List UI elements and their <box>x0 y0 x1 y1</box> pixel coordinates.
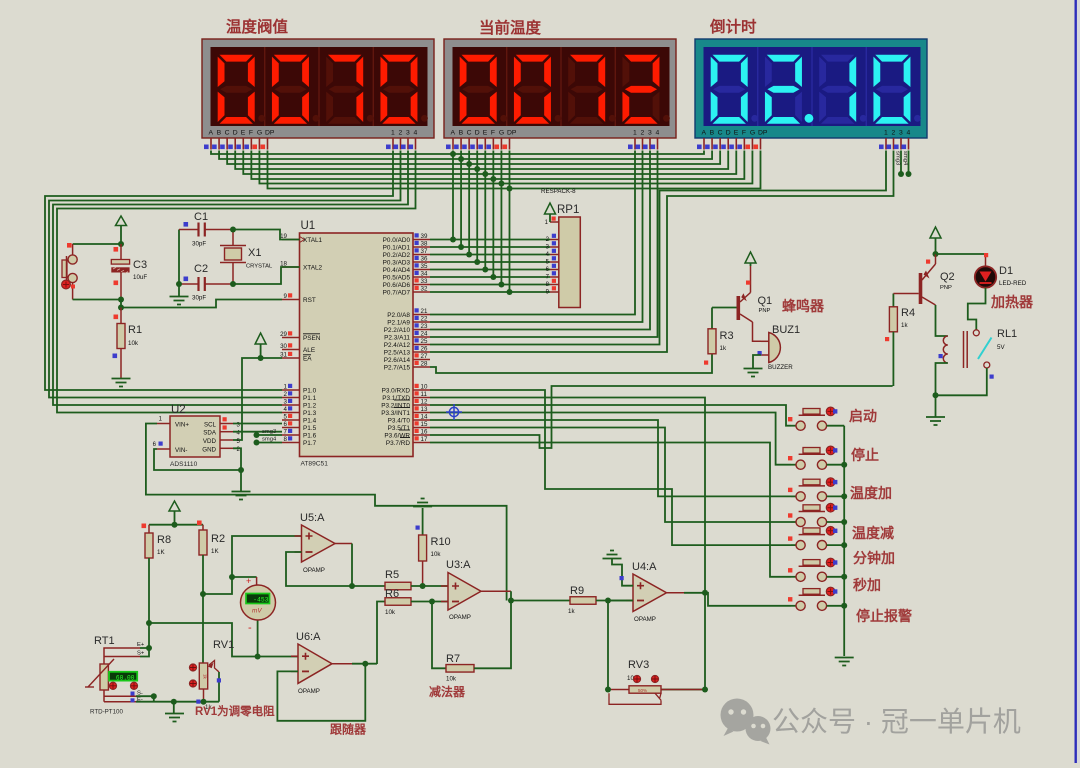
svg-text:2: 2 <box>892 130 896 137</box>
wire U3 out node <box>511 591 570 600</box>
svg-text:23: 23 <box>421 323 428 330</box>
svg-text:7: 7 <box>284 429 288 436</box>
resistor R2 <box>202 525 204 530</box>
svg-text:A: A <box>209 130 214 137</box>
wire R2 to U5+ and meter <box>203 536 302 594</box>
svg-text:分钟加: 分钟加 <box>853 550 895 566</box>
svg-text:减法器: 减法器 <box>429 684 466 699</box>
svg-text:mV: mV <box>252 608 262 615</box>
push button RESET <box>68 255 77 264</box>
display module DS1 (0070) <box>202 39 434 138</box>
svg-text:Q2: Q2 <box>940 271 955 283</box>
svg-text:SCL: SCL <box>204 422 217 429</box>
junction U4 out <box>702 590 708 596</box>
svg-text:Q1: Q1 <box>758 295 773 307</box>
capacitor C1 <box>179 229 199 231</box>
wire U4 minus <box>608 601 633 690</box>
sheet border (blue) <box>1075 0 1077 763</box>
svg-text:RV1为调零电阻: RV1为调零电阻 <box>195 704 275 718</box>
svg-text:P3.5/T1: P3.5/T1 <box>388 425 411 432</box>
svg-text:39: 39 <box>421 233 428 240</box>
wire meter minus <box>257 620 259 657</box>
svg-text:U1: U1 <box>301 220 316 232</box>
svg-text:5V: 5V <box>997 344 1005 351</box>
digit select wires DS2 to P2.0-P2.3 <box>430 151 635 315</box>
svg-text:11: 11 <box>421 391 428 398</box>
svg-text:P0.5/AD5: P0.5/AD5 <box>383 274 411 281</box>
svg-text:公众号 · 冠一单片机: 公众号 · 冠一单片机 <box>772 706 1021 737</box>
svg-text:16: 16 <box>421 429 428 436</box>
wire RTD S- E- node <box>136 696 154 702</box>
svg-text:10k: 10k <box>128 340 139 347</box>
ground U2 <box>232 492 251 500</box>
svg-text:R5: R5 <box>385 569 399 581</box>
svg-text:DP: DP <box>507 130 517 137</box>
svg-text:2: 2 <box>641 130 645 137</box>
svg-text:B: B <box>710 130 715 137</box>
resistor R7 <box>432 602 446 669</box>
svg-text:C2: C2 <box>194 263 208 275</box>
junction relay gnd <box>933 392 939 398</box>
ground RTD <box>165 714 184 722</box>
digit select wires DS3 pins 1,2 to P2.4-P2.5 <box>430 151 886 345</box>
svg-text:1: 1 <box>391 130 395 137</box>
svg-text:RV1: RV1 <box>213 639 234 651</box>
svg-text:VDD: VDD <box>203 438 217 445</box>
svg-text:R7: R7 <box>446 653 460 665</box>
svg-text:P0.1/AD1: P0.1/AD1 <box>383 244 411 251</box>
svg-text:停止报警: 停止报警 <box>856 608 912 624</box>
resistor R9 <box>570 597 596 605</box>
wire XTAL2 net <box>233 267 300 284</box>
junction U6 out <box>362 661 368 667</box>
svg-text:ALE: ALE <box>303 347 315 354</box>
sheet right margin <box>1077 0 1080 763</box>
svg-text:P0.7/AD7: P0.7/AD7 <box>383 289 411 296</box>
svg-text:1: 1 <box>633 130 637 137</box>
svg-text:10k: 10k <box>385 609 396 616</box>
svg-text:60.00: 60.00 <box>116 674 135 681</box>
svg-text:P0.2/AD2: P0.2/AD2 <box>383 252 411 259</box>
junction C1-C2 left <box>176 281 182 287</box>
svg-text:+: + <box>246 576 251 586</box>
svg-text:1k: 1k <box>720 345 727 352</box>
wire U4 out to SW7 <box>705 593 791 606</box>
svg-text:OPAMP: OPAMP <box>298 688 320 695</box>
svg-text:U3:A: U3:A <box>446 559 471 571</box>
potentiometer RV3 <box>629 686 661 693</box>
svg-text:4: 4 <box>656 130 660 137</box>
svg-text:smg4: smg4 <box>262 437 277 443</box>
junction U4 minus <box>605 598 611 604</box>
svg-text:秒加: 秒加 <box>853 577 881 593</box>
svg-text:停止: 停止 <box>851 447 879 463</box>
wire C1 left to C2 left to ground <box>178 230 180 297</box>
op-amp U3:A <box>448 573 481 611</box>
potentiometer RV1 <box>199 663 207 689</box>
svg-text:DP: DP <box>265 130 275 137</box>
junction RV3 left <box>605 687 611 693</box>
svg-text:-453: -453 <box>253 596 269 603</box>
svg-text:P1.6: P1.6 <box>303 432 317 439</box>
power arrow EA <box>255 333 266 344</box>
svg-text:D: D <box>726 130 731 137</box>
svg-text:EA: EA <box>303 355 312 362</box>
net labels smg3 smg4 at DS3 <box>900 151 902 175</box>
svg-text:当前温度: 当前温度 <box>479 18 542 37</box>
svg-text:4: 4 <box>414 130 418 137</box>
svg-text:BUZ1: BUZ1 <box>772 324 800 336</box>
push buttons SW1-SW7 <box>791 425 796 427</box>
svg-text:33: 33 <box>421 278 428 285</box>
svg-text:P1.4: P1.4 <box>303 417 317 424</box>
power arrow reset <box>116 216 127 226</box>
svg-text:30pF: 30pF <box>192 241 206 248</box>
wire P3.2 to button SW1 <box>430 405 791 426</box>
wire Q2 collector <box>936 305 948 336</box>
svg-text:P1.1: P1.1 <box>303 395 317 402</box>
svg-text:P0.0/AD0: P0.0/AD0 <box>383 237 411 244</box>
wires P0.0-P0.7 to RP1 <box>430 239 550 241</box>
crystal X1 <box>220 245 246 247</box>
svg-text:P3.7/RD: P3.7/RD <box>386 440 411 447</box>
svg-text:C3: C3 <box>133 259 147 271</box>
svg-text:E+: E+ <box>137 642 145 648</box>
svg-text:P3.0/RXD: P3.0/RXD <box>382 387 411 394</box>
svg-text:P0.4/AD4: P0.4/AD4 <box>383 267 411 274</box>
svg-text:E: E <box>483 130 488 137</box>
svg-text:12: 12 <box>421 399 428 406</box>
svg-text:DP: DP <box>758 130 768 137</box>
svg-text:1k: 1k <box>568 608 575 615</box>
resistor R1 <box>120 308 122 324</box>
svg-text:1K: 1K <box>157 549 165 556</box>
svg-text:38: 38 <box>421 241 428 248</box>
resistor R4 <box>892 294 894 307</box>
junction meter minus tap <box>255 654 261 660</box>
svg-text:D: D <box>475 130 480 137</box>
svg-text:RL1: RL1 <box>997 328 1017 340</box>
svg-text:R4: R4 <box>901 307 915 319</box>
svg-text:2: 2 <box>284 391 288 398</box>
svg-text:6: 6 <box>284 421 288 428</box>
svg-text:P2.7/A15: P2.7/A15 <box>384 364 411 371</box>
junction R7 riser <box>429 599 435 605</box>
svg-text:28: 28 <box>421 361 428 368</box>
svg-text:R2: R2 <box>211 533 225 545</box>
wire R3 to Q1 base <box>712 307 737 309</box>
svg-text:PSEN: PSEN <box>303 335 321 342</box>
square U4 plus <box>620 576 624 580</box>
svg-text:3: 3 <box>284 399 288 406</box>
relay RL1 switch <box>973 330 979 336</box>
svg-text:F: F <box>742 130 746 137</box>
junction E- gnd <box>171 699 177 705</box>
svg-text:A: A <box>702 130 707 137</box>
wire BUZ1 gnd <box>753 355 761 369</box>
svg-text:R1: R1 <box>128 324 142 336</box>
svg-text:AT89C51: AT89C51 <box>301 461 329 468</box>
svg-text:25: 25 <box>421 338 428 345</box>
svg-text:PNP: PNP <box>759 308 771 314</box>
svg-text:B: B <box>459 130 464 137</box>
junction R8R2 top <box>172 522 178 528</box>
svg-text:22: 22 <box>421 316 428 323</box>
svg-text:32: 32 <box>421 286 428 293</box>
svg-text:CRYSTAL: CRYSTAL <box>246 264 273 270</box>
svg-text:加热器: 加热器 <box>990 294 1034 310</box>
svg-text:P1.5: P1.5 <box>303 425 317 432</box>
svg-text:E: E <box>734 130 739 137</box>
wire U6 out <box>352 663 377 665</box>
svg-text:LED-RED: LED-RED <box>999 280 1027 287</box>
voltmeter mV <box>241 585 276 620</box>
display module DS2 (0072) <box>444 39 676 138</box>
svg-text:3: 3 <box>899 130 903 137</box>
junction C2-X1 <box>230 281 236 287</box>
svg-text:F: F <box>249 130 253 137</box>
junction U5 out <box>349 583 355 589</box>
junction R8 bottom <box>146 620 152 626</box>
resistor R6 <box>377 602 385 665</box>
junction RST tap <box>118 305 124 311</box>
display module DS3 (02.10) <box>695 39 927 138</box>
junction RV1 bottom <box>201 699 207 705</box>
svg-text:XTAL1: XTAL1 <box>303 237 323 244</box>
svg-text:G: G <box>257 130 262 137</box>
junction U2 ground <box>238 467 244 473</box>
wire U4 plus ground <box>612 559 633 586</box>
svg-text:ADS1110: ADS1110 <box>170 461 198 468</box>
svg-text:14: 14 <box>421 414 428 421</box>
svg-text:21: 21 <box>421 308 428 315</box>
svg-text:VIN-: VIN- <box>175 447 187 454</box>
LED D1 <box>936 253 986 255</box>
resistor pack RP1 RESPACK-8 <box>559 217 581 308</box>
svg-text:P3.1/TXD: P3.1/TXD <box>382 395 410 402</box>
svg-text:RTD-PT100: RTD-PT100 <box>90 709 123 716</box>
resistor R10 <box>413 499 432 507</box>
svg-text:P2.4/A12: P2.4/A12 <box>384 342 411 349</box>
svg-text:P1.3: P1.3 <box>303 410 317 417</box>
svg-text:P2.6/A14: P2.6/A14 <box>384 357 411 364</box>
svg-text:启动: 启动 <box>849 408 877 424</box>
svg-text:P0.3/AD3: P0.3/AD3 <box>383 259 411 266</box>
svg-text:跟随器: 跟随器 <box>330 722 367 737</box>
wire U6 feedback <box>277 664 365 721</box>
wire U5 out to R5 <box>352 585 385 587</box>
wire P3.3 to button SW2 <box>430 413 791 465</box>
svg-text:1K: 1K <box>211 548 219 555</box>
wire P3.0 to button SW5 <box>430 390 791 545</box>
wire EA net <box>233 358 282 440</box>
junction RTD E+ <box>146 645 152 651</box>
junction R10 bottom <box>420 583 426 589</box>
svg-text:4: 4 <box>284 406 288 413</box>
ground U4 plus <box>603 551 622 559</box>
segment verticals DS2 pins to P0 bus with junctions <box>452 151 454 240</box>
resistor R5 <box>385 582 411 590</box>
crosshair marker <box>449 407 458 416</box>
svg-text:U4:A: U4:A <box>632 561 657 573</box>
wire meter plus <box>232 576 257 578</box>
wire R8 bottom run <box>149 623 298 657</box>
capacitor C2 <box>179 283 199 285</box>
svg-text:30pF: 30pF <box>192 295 206 302</box>
svg-text:OPAMP: OPAMP <box>634 616 656 623</box>
svg-text:F: F <box>491 130 495 137</box>
watermark wechat icon <box>721 699 771 745</box>
buzzer BUZ1 <box>769 333 781 363</box>
svg-text:BUZZER: BUZZER <box>768 364 793 371</box>
svg-text:D1: D1 <box>999 265 1013 277</box>
svg-text:37: 37 <box>421 248 428 255</box>
transistor Q2 PNP <box>919 273 923 304</box>
svg-text:smg4: smg4 <box>902 151 908 166</box>
svg-text:RT1: RT1 <box>94 635 115 647</box>
net label smg3 <box>254 432 260 438</box>
svg-text:D: D <box>233 130 238 137</box>
wire P3.6 to R4 <box>430 386 893 448</box>
svg-text:SDA: SDA <box>203 430 217 437</box>
wire P3.5 to button SW4 <box>430 428 791 523</box>
wire P3.4 to button SW3 <box>430 420 791 496</box>
junction S- <box>151 693 157 699</box>
wire button common rail <box>843 426 845 656</box>
wire U4 out <box>684 592 705 594</box>
svg-text:24: 24 <box>421 331 428 338</box>
svg-text:9: 9 <box>284 293 288 300</box>
svg-text:P3.2/INT0: P3.2/INT0 <box>381 402 410 409</box>
ground XTAL <box>170 297 189 305</box>
svg-text:P2.1/A9: P2.1/A9 <box>387 319 410 326</box>
svg-text:15: 15 <box>421 421 428 428</box>
junction C1-X1 <box>230 227 236 233</box>
svg-text:XTAL2: XTAL2 <box>303 264 323 271</box>
ground BUZ1 <box>744 369 763 377</box>
wire P3.1 comparator net <box>430 398 705 690</box>
svg-text:X1: X1 <box>248 247 261 259</box>
wire RST net <box>121 300 282 308</box>
svg-text:温度减: 温度减 <box>852 525 894 541</box>
wire RTD E+ S+ node <box>140 648 149 657</box>
svg-text:RST: RST <box>303 297 316 304</box>
svg-text:G: G <box>499 130 504 137</box>
junction reset bottom <box>118 297 124 303</box>
svg-text:R6: R6 <box>385 588 399 600</box>
op-amp U6:A <box>298 644 332 683</box>
svg-text:P3.4/T0: P3.4/T0 <box>388 417 411 424</box>
svg-text:B: B <box>217 130 222 137</box>
ground relay <box>926 417 945 425</box>
svg-text:E: E <box>241 130 246 137</box>
svg-text:P2.0/A8: P2.0/A8 <box>387 312 410 319</box>
junction meter plus tap <box>229 574 235 580</box>
op RT1 RTD-PT100 <box>100 664 108 690</box>
svg-text:蜂鸣器: 蜂鸣器 <box>782 298 825 314</box>
junction U3 out <box>508 598 514 604</box>
svg-text:C: C <box>225 130 230 137</box>
transistor Q1 PNP <box>737 296 741 320</box>
svg-text:26: 26 <box>421 346 428 353</box>
svg-text:P2.5/A13: P2.5/A13 <box>384 349 411 356</box>
svg-text:U2: U2 <box>171 404 186 416</box>
wire U5 feedback <box>286 544 352 587</box>
svg-text:10: 10 <box>421 384 428 391</box>
svg-text:P1.0: P1.0 <box>303 387 317 394</box>
svg-text:3: 3 <box>406 130 410 137</box>
svg-text:OPAMP: OPAMP <box>449 614 471 621</box>
svg-text:10uF: 10uF <box>133 274 147 281</box>
wire VIN- net <box>154 449 241 470</box>
svg-text:P3.3/INT1: P3.3/INT1 <box>381 410 410 417</box>
svg-text:1: 1 <box>284 384 288 391</box>
svg-text:17: 17 <box>421 436 428 443</box>
svg-text:smg3: smg3 <box>262 429 276 435</box>
svg-text:R8: R8 <box>157 534 171 546</box>
svg-text:29: 29 <box>280 331 287 338</box>
svg-text:2: 2 <box>399 130 403 137</box>
svg-text:C: C <box>467 130 472 137</box>
wire reset bottom <box>73 299 121 301</box>
svg-text:P0.6/AD6: P0.6/AD6 <box>383 282 411 289</box>
digit select wires DS1 to P1.0-P1.3 (left bus) <box>45 151 393 391</box>
wire SCL to P1.4 <box>233 423 282 425</box>
ground R1 <box>112 379 131 387</box>
junction R2 bottom <box>200 591 206 597</box>
svg-text:5: 5 <box>284 414 288 421</box>
wire reset top <box>73 243 121 245</box>
svg-text:1k: 1k <box>203 674 208 680</box>
svg-text:G: G <box>750 130 755 137</box>
svg-text:C1: C1 <box>194 211 208 223</box>
svg-text:S+: S+ <box>137 651 145 657</box>
svg-text:RP1: RP1 <box>557 204 579 216</box>
net label smg4 <box>254 440 260 446</box>
svg-text:-: - <box>248 622 252 634</box>
capacitor C3 <box>120 244 122 260</box>
svg-text:1: 1 <box>884 130 888 137</box>
svg-text:RV3: RV3 <box>628 659 649 671</box>
svg-text:R10: R10 <box>431 536 451 548</box>
svg-text:smg3: smg3 <box>895 151 901 165</box>
svg-text:R9: R9 <box>570 585 584 597</box>
power arrow RP1 <box>545 203 556 214</box>
svg-text:10k: 10k <box>446 676 457 683</box>
junction RV3 right <box>702 687 708 693</box>
wire VIN+ to subtractor node <box>146 424 507 601</box>
svg-text:温度阀值: 温度阀值 <box>226 17 289 36</box>
wire XTAL1 net <box>233 230 300 240</box>
svg-text:36: 36 <box>421 256 428 263</box>
svg-text:P1.7: P1.7 <box>303 440 317 447</box>
svg-text:倒计时: 倒计时 <box>709 17 757 36</box>
power arrow Q2 <box>930 227 941 238</box>
svg-text:VIN+: VIN+ <box>175 422 189 429</box>
svg-text:27: 27 <box>421 353 428 360</box>
svg-text:OPAMP: OPAMP <box>303 567 325 574</box>
relay RL1 coil <box>943 336 948 363</box>
op U2 ADS1110 adc <box>170 416 220 457</box>
svg-text:RESPACK-8: RESPACK-8 <box>541 188 576 195</box>
svg-text:P2.3/A11: P2.3/A11 <box>384 334 410 341</box>
svg-text:35: 35 <box>421 263 428 270</box>
wire R8R2 top <box>149 524 203 526</box>
resistor R8 <box>148 525 150 533</box>
svg-text:温度加: 温度加 <box>850 485 892 501</box>
wire P2.7 to R3 <box>430 354 712 373</box>
svg-text:A: A <box>451 130 456 137</box>
